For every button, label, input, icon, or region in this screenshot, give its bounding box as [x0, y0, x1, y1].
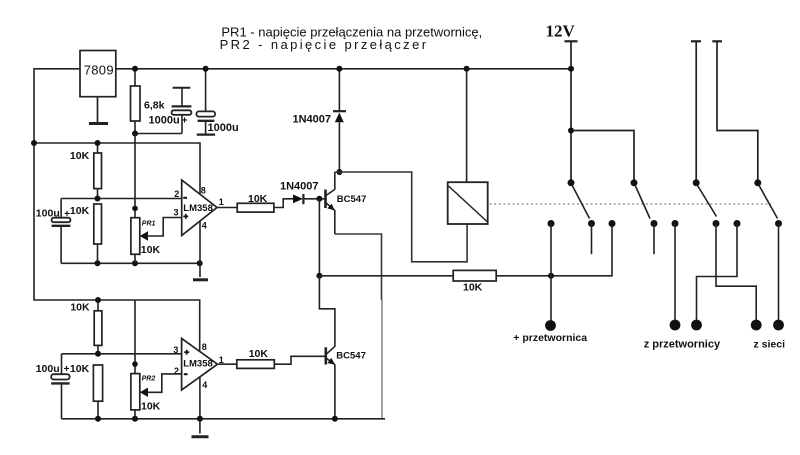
ground below U2 [192, 419, 209, 437]
diode D2 1N4007 [280, 180, 325, 204]
node gnd rail at U1 pin4 [197, 260, 203, 266]
node divider mid stage2 [95, 351, 101, 357]
terminals z przetwornicy [670, 320, 681, 331]
svg-text:4: 4 [202, 221, 207, 231]
ground below U1 [193, 263, 208, 280]
wire top rail left of 7809 [34, 69, 200, 352]
node gnd2 at PR2 [132, 416, 138, 422]
transistor Q1 BC547 [326, 172, 335, 234]
node X [316, 273, 322, 279]
svg-text:100u: 100u [36, 208, 60, 220]
switch S3 [693, 179, 700, 186]
svg-text:1: 1 [219, 197, 224, 207]
svg-text:2: 2 [174, 189, 179, 199]
wire S3 left throw down [674, 224, 676, 326]
resistor R3 10K (U1 output) [237, 193, 274, 212]
ground below 7809 [89, 97, 108, 124]
throw contacts row [548, 220, 555, 227]
node top rail at 6,8k [132, 66, 138, 72]
wire R4 to switch S2 throw [496, 224, 612, 276]
node top rail at C2 [203, 66, 209, 72]
svg-text:100u: 100u [36, 363, 60, 375]
node gnd2 at U2 pin4 [197, 416, 203, 422]
capacitor C2 1000u [196, 69, 215, 135]
svg-text:+: + [64, 209, 70, 220]
svg-text:7809: 7809 [84, 63, 114, 78]
wire S3 right throw step [716, 224, 756, 326]
switch S1 [568, 179, 575, 186]
wire R7 to Q2 base [274, 356, 325, 364]
node divider mid [95, 196, 101, 202]
node rail x34 y143 [31, 140, 37, 146]
12V feed [565, 41, 635, 183]
node D1 / Q1 collector [336, 169, 342, 175]
node on PR1 feed [132, 206, 138, 212]
wire Q1 emitter lower (faded) [381, 300, 383, 419]
svg-text:1N4007: 1N4007 [280, 180, 319, 192]
relay K1 [448, 182, 488, 224]
node top rail at relay [464, 66, 470, 72]
node 12V branch [568, 128, 574, 134]
svg-text:4: 4 [202, 380, 207, 390]
switch S2 [631, 179, 638, 186]
node gnd2 at Q2 emitter [332, 416, 338, 422]
svg-text:z sieci: z sieci [754, 338, 786, 350]
svg-text:LM358: LM358 [183, 203, 213, 214]
svg-text:3: 3 [173, 208, 178, 218]
wire U2 output [218, 363, 237, 365]
svg-text:+: + [64, 364, 70, 375]
wire 6,8k node down to PR1 [134, 134, 136, 218]
resistor 6,8k [131, 69, 165, 134]
wire node X down to Q2 collector [319, 276, 335, 347]
wire relay coil top to rail [466, 69, 468, 182]
wire S1 right throw stub [591, 224, 593, 255]
resistor R4 10K (to switch) [453, 270, 496, 293]
wire U1 output [217, 207, 237, 209]
svg-text:8: 8 [201, 185, 206, 195]
wire U2 pin4 to ground rail [199, 377, 201, 419]
node Q1 base [316, 196, 322, 202]
node rail at R5 top [95, 297, 101, 303]
resistor R6 10K (lower divider, stage 2) [70, 363, 103, 419]
node on PR2 feed [132, 361, 138, 367]
resistor R2 10K (lower divider, stage 1) [70, 204, 102, 263]
supply lines right [691, 41, 758, 183]
svg-text:10K: 10K [249, 348, 269, 360]
resistor R5 10K (upper divider, stage 2) [70, 300, 102, 354]
node rail at R1 top [95, 140, 101, 146]
svg-text:10K: 10K [248, 193, 268, 205]
capacitor C1 1000u [172, 88, 192, 134]
resistor R7 10K (U2 output) [237, 348, 274, 368]
svg-text:1N4007: 1N4007 [293, 114, 332, 126]
svg-text:PR2: PR2 [142, 375, 156, 382]
resistor R1 10K (upper divider, stage 1) [70, 143, 102, 199]
svg-text:1000u: 1000u [149, 115, 180, 127]
svg-text:1000u: 1000u [208, 122, 239, 134]
svg-text:10K: 10K [70, 363, 90, 375]
node 12V top rail [568, 66, 574, 72]
terminal + przetwornica [545, 320, 556, 331]
op-amp U2 LM358 [173, 338, 223, 390]
wire node X to R4 [319, 275, 453, 277]
svg-text:BC547: BC547 [337, 194, 367, 205]
wire Q1 emitter to ground rail [335, 234, 382, 300]
node at S1 left throw column [548, 273, 554, 279]
svg-text:10K: 10K [70, 205, 90, 217]
svg-text:+: + [182, 116, 188, 127]
node gnd2 at R6 [95, 416, 101, 422]
wire R3 to D2 [274, 199, 294, 208]
wire S4 right throw down [778, 224, 780, 326]
wire stage2 ground rail [62, 418, 386, 420]
capacitor C3 100u (stage 1) [52, 199, 71, 264]
svg-text:10K: 10K [463, 282, 483, 294]
diode D1 1N4007 (flyback) [293, 69, 347, 172]
dotted actuator line [490, 203, 772, 205]
svg-text:10K: 10K [141, 401, 161, 413]
node top rail at D1 [336, 66, 342, 72]
wire divider mid to U1 pin2 [61, 198, 182, 200]
svg-text:PR2 - napięcie przełączer: PR2 - napięcie przełączer [220, 37, 429, 52]
wire S4 left throw step [697, 224, 738, 326]
node gnd rail at R2 [95, 260, 101, 266]
wire divider mid to U2 pin3 [62, 353, 182, 355]
transistor Q2 BC547 [326, 346, 335, 419]
wire S1 left throw down [550, 224, 552, 326]
wire rail to op-amp U1 pin 8 [34, 143, 200, 194]
node Q1 base to Q2 collector rail [318, 199, 320, 276]
svg-text:10K: 10K [70, 301, 90, 313]
wire stage1 ground rail [61, 262, 200, 264]
potentiometer PR1 10K [131, 218, 182, 264]
wire C1 bottom to 6,8k bottom [135, 133, 182, 135]
op-amp U1 LM358 [173, 180, 223, 263]
svg-text:10K: 10K [70, 150, 90, 162]
svg-text:6,8k: 6,8k [144, 100, 165, 112]
switch S4 [754, 179, 761, 186]
svg-text:8: 8 [202, 342, 207, 352]
svg-text:z przetwornicy: z przetwornicy [644, 338, 721, 350]
wire top rail right of 7809 to 12V [116, 68, 571, 70]
terminals z sieci [751, 320, 762, 331]
svg-text:12V: 12V [546, 22, 576, 41]
node 6,8k bottom [132, 131, 138, 137]
svg-text:10K: 10K [141, 244, 161, 256]
wire S2 right throw stub [653, 224, 655, 255]
svg-text:BC547: BC547 [336, 350, 366, 361]
svg-text:PR1: PR1 [142, 221, 156, 228]
capacitor C4 100u (stage 2) [51, 354, 69, 419]
svg-text:+ przetwornica: + przetwornica [513, 332, 587, 344]
wire collector node to relay coil [335, 172, 467, 262]
potentiometer PR2 10K [131, 374, 182, 419]
node gnd rail at PR1 [132, 260, 138, 266]
wire rail to PR2 top [134, 300, 136, 374]
svg-text:LM358: LM358 [183, 358, 213, 369]
regulator 7809 [80, 51, 116, 97]
